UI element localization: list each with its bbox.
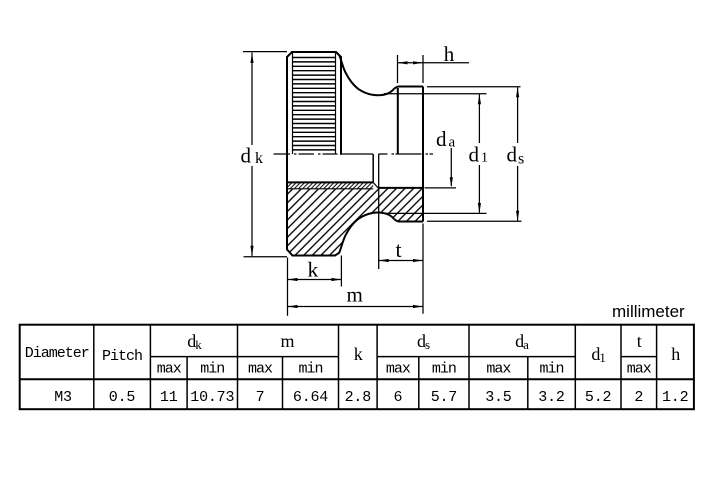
thread major line (thin)	[288, 188, 374, 190]
svg-text:Diameter: Diameter	[25, 345, 89, 362]
svg-text:k: k	[308, 258, 319, 282]
da dimension	[425, 187, 457, 189]
svg-text:M3: M3	[54, 389, 72, 406]
svg-text:s: s	[518, 151, 524, 168]
thread end vertical	[372, 154, 374, 182]
m dimension	[288, 306, 424, 308]
svg-text:min: min	[298, 361, 322, 378]
svg-text:a: a	[449, 135, 456, 151]
svg-text:t: t	[396, 237, 402, 262]
table grid	[20, 325, 694, 410]
svg-text:millimeter: millimeter	[612, 302, 685, 321]
svg-text:2.8: 2.8	[345, 389, 372, 406]
table header text	[25, 331, 681, 378]
svg-text:11: 11	[160, 389, 178, 406]
table data row	[54, 389, 688, 406]
svg-text:k: k	[354, 344, 363, 364]
svg-text:max: max	[386, 361, 411, 378]
svg-text:5.2: 5.2	[585, 389, 611, 406]
svg-text:m: m	[347, 283, 363, 307]
thread minor line (thick)	[288, 181, 374, 183]
thread runout diagonal	[373, 182, 379, 188]
knurled head hatch section	[287, 188, 423, 256]
svg-text:3.5: 3.5	[485, 389, 512, 406]
dk dimension	[243, 52, 287, 257]
svg-text:d: d	[507, 143, 518, 167]
ds dimension	[427, 87, 522, 221]
fillet curve top	[339, 55, 394, 95]
svg-text:Pitch: Pitch	[102, 348, 142, 365]
boss top chamfer	[394, 87, 398, 89]
svg-text:d: d	[436, 127, 447, 151]
svg-text:h: h	[444, 42, 455, 66]
t dimension	[379, 224, 423, 314]
svg-text:min: min	[432, 361, 456, 378]
svg-text:d: d	[469, 143, 480, 167]
boss bottom chamfer	[394, 219, 398, 221]
svg-text:7: 7	[256, 389, 265, 406]
counterbore bottom edge	[379, 187, 423, 189]
fillet curve bottom	[335, 213, 394, 256]
svg-text:1.2: 1.2	[662, 389, 688, 406]
svg-text:min: min	[539, 361, 563, 378]
d1 dimension	[382, 94, 487, 214]
svg-text:5.7: 5.7	[431, 389, 457, 406]
svg-text:max: max	[627, 361, 652, 378]
svg-text:3.2: 3.2	[538, 389, 564, 406]
svg-text:m: m	[280, 331, 294, 351]
svg-text:min: min	[200, 361, 224, 378]
thread band dense hatch	[288, 182, 374, 188]
centerline	[274, 153, 434, 155]
svg-text:2: 2	[634, 389, 643, 406]
svg-text:6: 6	[393, 389, 402, 406]
h dimension	[398, 55, 470, 83]
svg-text:6.64: 6.64	[293, 389, 328, 406]
counterbore left edge + t extension line	[378, 154, 380, 269]
head outline	[287, 52, 341, 256]
boss face intersection edge	[397, 88, 399, 154]
svg-text:10.73: 10.73	[190, 389, 234, 406]
knurl lines	[293, 58, 336, 150]
svg-text:max: max	[248, 361, 273, 378]
svg-text:k: k	[255, 150, 263, 167]
svg-text:d: d	[241, 144, 252, 168]
svg-text:0.5: 0.5	[109, 389, 136, 406]
svg-text:max: max	[157, 361, 182, 378]
boss outline	[398, 87, 423, 222]
k dimension	[288, 256, 342, 316]
svg-text:h: h	[671, 344, 680, 364]
svg-text:max: max	[486, 361, 511, 378]
svg-text:1: 1	[481, 151, 488, 166]
chamfer edge lines of head	[293, 53, 336, 154]
